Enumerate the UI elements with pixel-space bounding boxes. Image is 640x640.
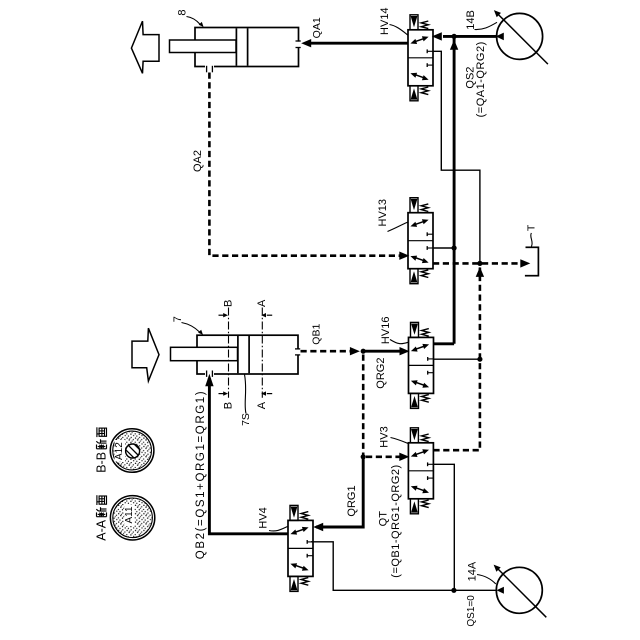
svg-text:HV14: HV14 <box>379 7 391 35</box>
junction pump 14A line <box>451 588 456 593</box>
valve HV4 bottom pilot actuator <box>290 576 298 591</box>
wire QS2 pump 14B to valve HV14 <box>432 32 497 40</box>
head-end port of cylinder 8 <box>296 41 301 48</box>
valve HV3 upper position blocked port <box>428 462 434 466</box>
svg-text:QB2(=QS1+QRG1=QRG1): QB2(=QS1+QRG1=QRG1) <box>195 390 207 559</box>
valve HV16 lower position blocked port <box>428 371 434 375</box>
cylinder 7 body <box>197 335 298 374</box>
svg-text:A12: A12 <box>114 442 125 460</box>
valve HV16 top spring <box>422 329 429 337</box>
label HV13 <box>377 199 407 232</box>
direction arrow (retract) at cylinder 8 <box>131 21 159 73</box>
valve HV13 top spring <box>421 204 428 212</box>
head-end port of cylinder 7 <box>295 349 300 355</box>
svg-text:QA2: QA2 <box>192 150 204 172</box>
wire from HV13 service port to QS2 line <box>433 247 454 249</box>
valve HV16 upper position blocked port <box>428 357 434 361</box>
svg-text:QRG1: QRG1 <box>346 485 358 516</box>
svg-text:B: B <box>222 402 234 409</box>
wire QB1 junction to valve HV16 <box>363 347 409 355</box>
valve HV14 lower position flow path <box>410 73 428 81</box>
label HV4 <box>257 507 287 531</box>
wire QS2 vertical run to valve HV16 <box>434 36 454 343</box>
valve HV16 top pilot actuator <box>411 322 419 337</box>
rod-end port of cylinder 7 <box>205 371 214 377</box>
valve HV14 lower position blocked port <box>427 63 433 67</box>
svg-text:HV3: HV3 <box>378 426 390 447</box>
junction QB1/QRG2 <box>361 349 366 354</box>
valve HV13 bottom pilot actuator <box>410 269 418 284</box>
valve HV3 bottom spring <box>422 500 429 508</box>
cylinder 7 piston <box>238 336 249 373</box>
wire from HV16 service port to return line <box>434 358 480 360</box>
wire return from HV3 up to tank line <box>433 267 484 450</box>
valve HV13 top pilot actuator <box>410 198 418 213</box>
valve HV13 body <box>408 213 433 269</box>
section arrow B bottom <box>219 391 229 395</box>
valve HV14 upper position blocked port <box>427 49 433 53</box>
svg-text:HV13: HV13 <box>377 199 389 227</box>
pump 14A <box>494 565 547 618</box>
pump 14B <box>494 10 548 64</box>
valve HV4 upper position blocked port <box>307 540 313 544</box>
label 7S <box>240 375 252 426</box>
svg-text:A11: A11 <box>124 506 135 523</box>
svg-text:HV4: HV4 <box>257 507 269 528</box>
junction tank return <box>477 261 482 266</box>
svg-text:A-A: A-A <box>95 519 109 541</box>
section line B-B <box>228 308 230 398</box>
valve HV4 lower position flow path <box>290 563 308 571</box>
svg-text:QRG2: QRG2 <box>375 358 387 389</box>
valve HV14 top pilot actuator <box>410 15 418 30</box>
svg-text:QT: QT <box>377 511 389 527</box>
label 14B <box>465 10 497 30</box>
valve HV13 lower position flow path <box>410 256 428 264</box>
label HV16 <box>380 317 408 345</box>
svg-text:T: T <box>525 224 537 231</box>
valve HV4 top spring <box>301 512 308 520</box>
valve HV16 body <box>409 337 434 393</box>
wire QB2 from valve HV4 to cylinder 7 <box>205 374 288 534</box>
cylinder 8 piston <box>236 28 247 65</box>
svg-text:7S: 7S <box>240 413 252 426</box>
label 7 <box>172 316 203 335</box>
junction pump 14B line <box>452 34 457 39</box>
valve HV14 upper position flow path <box>410 36 428 44</box>
wire HV4 drain to pump 14A line <box>311 542 454 591</box>
valve HV14 top spring <box>421 21 428 29</box>
wire from HV3 service port down to pump 14A line <box>433 464 454 590</box>
section arrow A top <box>261 313 272 317</box>
section view B-B circle A12 <box>110 429 154 473</box>
svg-text:(=QB1-QRG1-QRG2): (=QB1-QRG1-QRG2) <box>390 464 402 577</box>
label 8 <box>176 9 203 27</box>
cylinder 8 rod <box>170 40 237 53</box>
wire pump 14A output <box>454 589 497 591</box>
valve HV13 upper position blocked port <box>427 232 433 236</box>
valve HV16 bottom pilot actuator <box>411 393 419 408</box>
wire QB1 from cylinder 7 <box>301 347 360 355</box>
valve HV13 lower position blocked port <box>427 246 433 250</box>
valve HV14 bottom spring <box>421 87 428 95</box>
valve HV16 bottom spring <box>422 395 429 403</box>
valve HV4 top pilot actuator <box>290 505 298 520</box>
wire QA2 from cylinder 8 to valve HV13 <box>209 73 409 260</box>
wire tank return from HV13 to tank <box>433 259 530 267</box>
valve HV4 lower position blocked port <box>307 554 313 558</box>
valve HV4 body <box>288 520 313 576</box>
svg-text:QA1: QA1 <box>311 17 323 38</box>
valve HV3 lower position blocked port <box>428 476 434 480</box>
label A-A断面 <box>95 495 109 541</box>
wire QRG1 from junction to valve HV4 <box>313 457 363 531</box>
section view A-A circle A11 <box>110 496 154 540</box>
wire QA1 from valve HV14 to cylinder 8 <box>301 39 408 47</box>
label T with leader <box>525 224 537 246</box>
wire QRG2 down to HV3 <box>363 355 409 462</box>
flow arrow QS2 upward <box>450 40 458 50</box>
svg-text:QB1: QB1 <box>311 324 323 345</box>
label 14A <box>467 561 496 584</box>
section arrow A bottom <box>261 391 272 395</box>
label B-B断面 <box>95 427 109 473</box>
section arrow B top <box>219 313 229 317</box>
valve HV13 upper position flow path <box>410 219 428 227</box>
tank T <box>525 247 539 277</box>
valve HV4 upper position flow path <box>290 527 308 535</box>
valve HV4 bottom spring <box>301 578 308 586</box>
svg-text:14B: 14B <box>465 10 477 30</box>
valve HV16 upper position flow path <box>411 344 429 352</box>
svg-text:14A: 14A <box>467 561 479 581</box>
svg-text:7: 7 <box>172 316 184 322</box>
wire from HV14 service port down to return line <box>433 51 480 263</box>
valve HV14 body <box>408 30 433 86</box>
valve HV3 top spring <box>422 434 429 442</box>
svg-text:B: B <box>222 300 234 307</box>
svg-text:A: A <box>256 401 268 409</box>
valve HV3 bottom pilot actuator <box>410 499 418 514</box>
valve HV3 lower position flow path <box>411 486 429 494</box>
valve HV16 lower position flow path <box>411 380 429 388</box>
section line A-A <box>261 308 263 398</box>
label HV14 <box>379 7 408 35</box>
junction HV16 port on return line <box>477 357 482 362</box>
svg-text:(=QA1-QRG2): (=QA1-QRG2) <box>475 41 487 117</box>
label HV3 <box>378 426 408 447</box>
rod-end port of cylinder 8 <box>205 65 214 73</box>
direction arrow (extend) at cylinder 7 <box>132 328 159 381</box>
junction QRG2/QRG1 <box>361 454 366 459</box>
valve HV3 top pilot actuator <box>410 428 418 443</box>
cylinder 7 rod <box>171 347 238 360</box>
svg-text:QS1=0: QS1=0 <box>466 595 477 627</box>
valve HV3 upper position flow path <box>411 449 429 457</box>
cylinder 8 body <box>195 28 299 67</box>
svg-text:B-B: B-B <box>95 452 109 473</box>
valve HV13 bottom spring <box>421 270 428 278</box>
junction HV13 port on QS2 line <box>452 245 457 250</box>
valve HV3 body <box>408 443 433 499</box>
valve HV14 bottom pilot actuator <box>410 86 418 101</box>
svg-text:8: 8 <box>176 9 188 15</box>
svg-text:A: A <box>256 299 268 307</box>
